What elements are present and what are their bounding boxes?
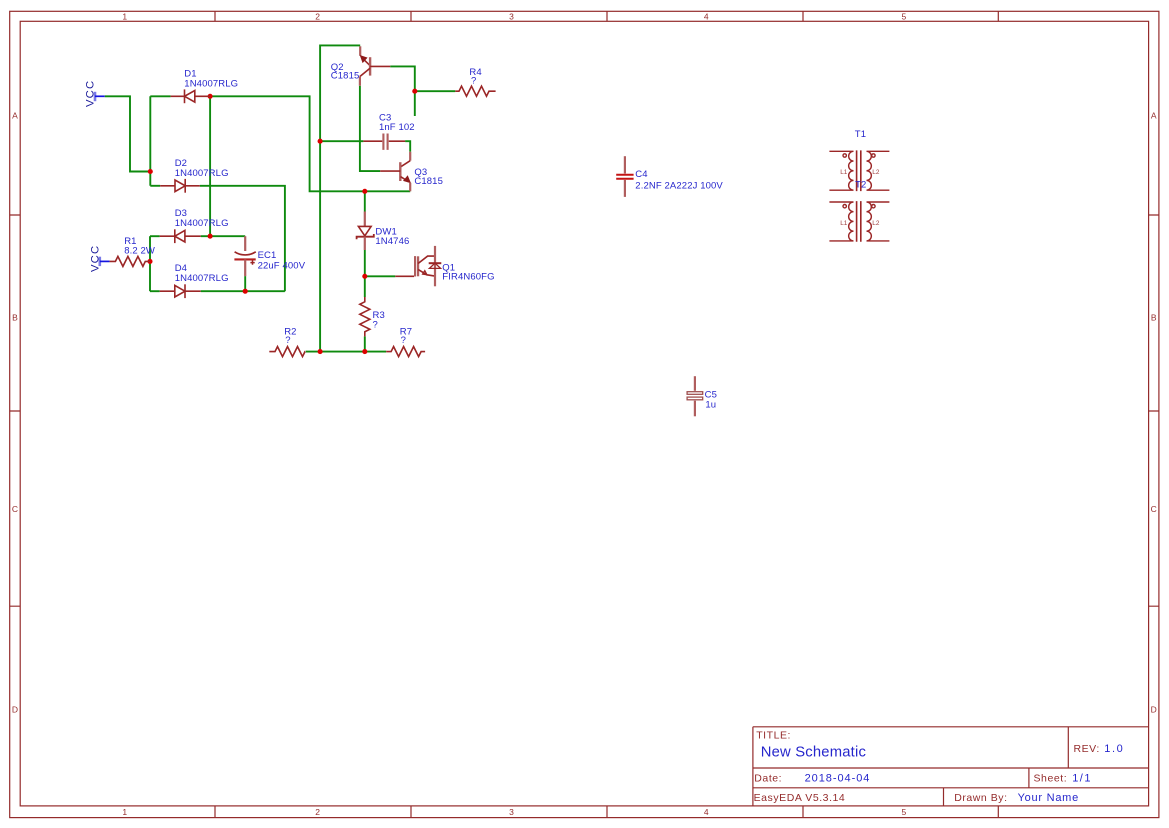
- svg-text:5: 5: [902, 11, 907, 21]
- junction R4 node: [412, 89, 417, 94]
- junction D1 output: [208, 94, 213, 99]
- wire vertical bus x150 top (D1/D2 feed): [149, 96, 151, 186]
- svg-text:1nF 102: 1nF 102: [379, 122, 415, 133]
- transistor Q1 IGBT: [395, 246, 441, 286]
- svg-text:D: D: [1151, 705, 1157, 715]
- wire gate node to Q1 gate lead: [365, 275, 396, 277]
- svg-text:VCC: VCC: [85, 80, 97, 107]
- svg-text:2.2NF 2A222J 100V: 2.2NF 2A222J 100V: [635, 180, 723, 191]
- diode D1: [171, 89, 211, 103]
- transistor Q3: [380, 152, 411, 192]
- junction C3 left bus: [318, 139, 323, 144]
- power VCC bottom: [89, 245, 109, 272]
- svg-text:2: 2: [315, 11, 320, 21]
- svg-text:2018-04-04: 2018-04-04: [805, 773, 871, 785]
- wire D1 junction down to D3 junction: [209, 96, 211, 236]
- resistor R4: [455, 86, 495, 96]
- wire R4 node to resistor: [415, 90, 456, 92]
- resistor R3: [360, 297, 370, 336]
- svg-text:VCC: VCC: [89, 245, 101, 272]
- wire bottom rail R2 to R7: [306, 351, 387, 353]
- svg-text:3: 3: [509, 807, 514, 817]
- svg-text:L1: L1: [840, 169, 848, 176]
- svg-text:T2: T2: [855, 179, 866, 190]
- wire bus to D3: [150, 235, 160, 237]
- junction EC1 bottom: [243, 289, 248, 294]
- svg-text:New Schematic: New Schematic: [761, 744, 867, 760]
- wire Q2 emitter top rail and long bus x320: [320, 45, 360, 351]
- wire Q2 base to R4 node: [390, 66, 415, 116]
- resistor R7: [386, 347, 425, 357]
- TITLE BLOCK: [753, 727, 1149, 806]
- svg-text:1N4746: 1N4746: [375, 236, 409, 247]
- svg-text:A: A: [1151, 110, 1157, 120]
- svg-text:1N4007RLG: 1N4007RLG: [175, 168, 229, 179]
- svg-text:FIR4N60FG: FIR4N60FG: [442, 272, 494, 283]
- capacitor C5: [687, 376, 703, 416]
- wire EC1 bottom to D4 rail: [244, 276, 246, 291]
- svg-text:?: ?: [285, 335, 290, 346]
- svg-text:Drawn By:: Drawn By:: [954, 792, 1007, 804]
- svg-text:EasyEDA V5.3.14: EasyEDA V5.3.14: [754, 792, 846, 804]
- svg-text:C: C: [1151, 504, 1157, 514]
- svg-text:B: B: [1151, 313, 1157, 323]
- wire bus to D1 anode: [150, 95, 170, 97]
- svg-text:1N4007RLG: 1N4007RLG: [184, 78, 238, 89]
- svg-text:C1815: C1815: [414, 176, 443, 187]
- transformer T1: [829, 150, 889, 191]
- wire vertical x150 D3-D4: [149, 236, 151, 291]
- junction VCC1 bus: [148, 169, 153, 174]
- svg-text:L1: L1: [840, 220, 848, 227]
- svg-text:1u: 1u: [705, 400, 716, 411]
- svg-text:3: 3: [509, 11, 514, 21]
- wire C3 right corner to Q3 collector: [405, 141, 410, 152]
- transformer T2: [829, 201, 889, 242]
- svg-text:B: B: [12, 313, 18, 323]
- diode D3: [160, 229, 201, 243]
- svg-text:L2: L2: [872, 220, 880, 227]
- wire bus to D2: [150, 185, 160, 187]
- title block outline: [753, 727, 1149, 806]
- svg-text:1.0: 1.0: [1104, 743, 1124, 755]
- junction bottom rail R3: [362, 349, 367, 354]
- svg-text:?: ?: [373, 319, 378, 330]
- transformer T2 winding labels: [840, 220, 880, 227]
- wire C3 left from bus: [320, 140, 363, 142]
- svg-text:1: 1: [122, 11, 127, 21]
- svg-text:TITLE:: TITLE:: [756, 730, 791, 742]
- junction DW1 top mid rail: [362, 189, 367, 194]
- power VCC top: [85, 80, 105, 107]
- transistor Q2: [360, 46, 391, 85]
- svg-text:C: C: [12, 504, 18, 514]
- svg-text:T1: T1: [855, 129, 866, 140]
- svg-text:Sheet:: Sheet:: [1034, 773, 1068, 785]
- svg-text:1/1: 1/1: [1072, 773, 1092, 785]
- wire gate node down to R3: [364, 276, 366, 297]
- wire D4 out along bottom to corner: [201, 290, 285, 292]
- svg-text:C4: C4: [635, 169, 647, 180]
- svg-text:1N4007RLG: 1N4007RLG: [175, 273, 229, 284]
- wire bus to D4: [150, 290, 160, 292]
- junction bottom rail bus: [318, 349, 323, 354]
- wire DW1 bottom to gate node: [364, 250, 366, 276]
- title block DrawnBy divider: [943, 788, 945, 806]
- svg-text:4: 4: [704, 807, 709, 817]
- title block row line 1: [753, 767, 1149, 769]
- title block row line 2: [753, 787, 1149, 789]
- title block values: [761, 743, 1125, 804]
- capacitor C4: [616, 156, 633, 197]
- transformer T1 winding labels: [840, 169, 880, 176]
- title block labels: [754, 730, 1100, 804]
- svg-text:1N4007RLG: 1N4007RLG: [175, 218, 229, 229]
- wire D1 junction to Q2 column and mid rail: [210, 96, 410, 191]
- svg-text:?: ?: [471, 76, 476, 87]
- wire R3 bottom to bottom rail: [364, 336, 366, 351]
- svg-text:5: 5: [902, 807, 907, 817]
- diode D2: [160, 179, 200, 193]
- svg-text:A: A: [12, 110, 18, 120]
- svg-text:EC1: EC1: [258, 250, 277, 261]
- wire Q2 collector down to Q3 base: [360, 86, 380, 171]
- svg-text:REV:: REV:: [1074, 743, 1100, 755]
- svg-text:1: 1: [122, 807, 127, 817]
- title block Sheet divider: [1028, 768, 1030, 788]
- svg-text:Your Name: Your Name: [1018, 792, 1079, 804]
- junction R1 right: [147, 259, 152, 264]
- junction D3 output: [208, 234, 213, 239]
- svg-text:D: D: [12, 705, 18, 715]
- wire D2 out right and down to D4 rail: [200, 186, 285, 291]
- svg-text:2: 2: [315, 807, 320, 817]
- capacitor C3: [363, 134, 405, 150]
- capacitor EC1: [234, 236, 255, 276]
- wire D3 out to EC1 top: [201, 235, 246, 237]
- svg-text:4: 4: [704, 11, 709, 21]
- svg-text:8.2 2W: 8.2 2W: [124, 245, 155, 256]
- title block REV divider: [1067, 727, 1069, 768]
- svg-text:?: ?: [401, 335, 406, 346]
- resistor R1: [110, 256, 150, 266]
- svg-text:Date:: Date:: [754, 773, 782, 785]
- wire DW1 top from mid rail: [364, 191, 366, 211]
- resistor R2: [269, 347, 305, 357]
- svg-text:C1815: C1815: [331, 71, 360, 82]
- wire VCC1 to vertical bus: [105, 96, 151, 171]
- svg-text:L2: L2: [872, 169, 880, 176]
- junction Q1 gate node: [362, 274, 367, 279]
- diode D4: [160, 284, 201, 298]
- zener diode DW1: [357, 212, 374, 251]
- svg-text:22uF 400V: 22uF 400V: [258, 261, 306, 272]
